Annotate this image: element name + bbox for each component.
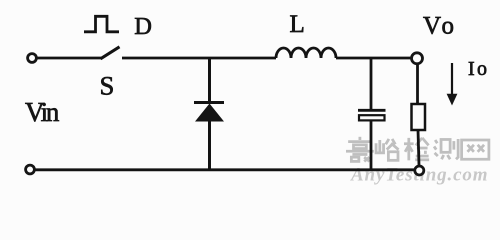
svg-text:D: D: [134, 13, 152, 40]
svg-text:Io: Io: [468, 58, 487, 80]
svg-text:L: L: [290, 11, 305, 38]
svg-text:S: S: [100, 71, 115, 101]
svg-text:Vo: Vo: [423, 13, 454, 40]
svg-text:Vin: Vin: [25, 97, 60, 127]
